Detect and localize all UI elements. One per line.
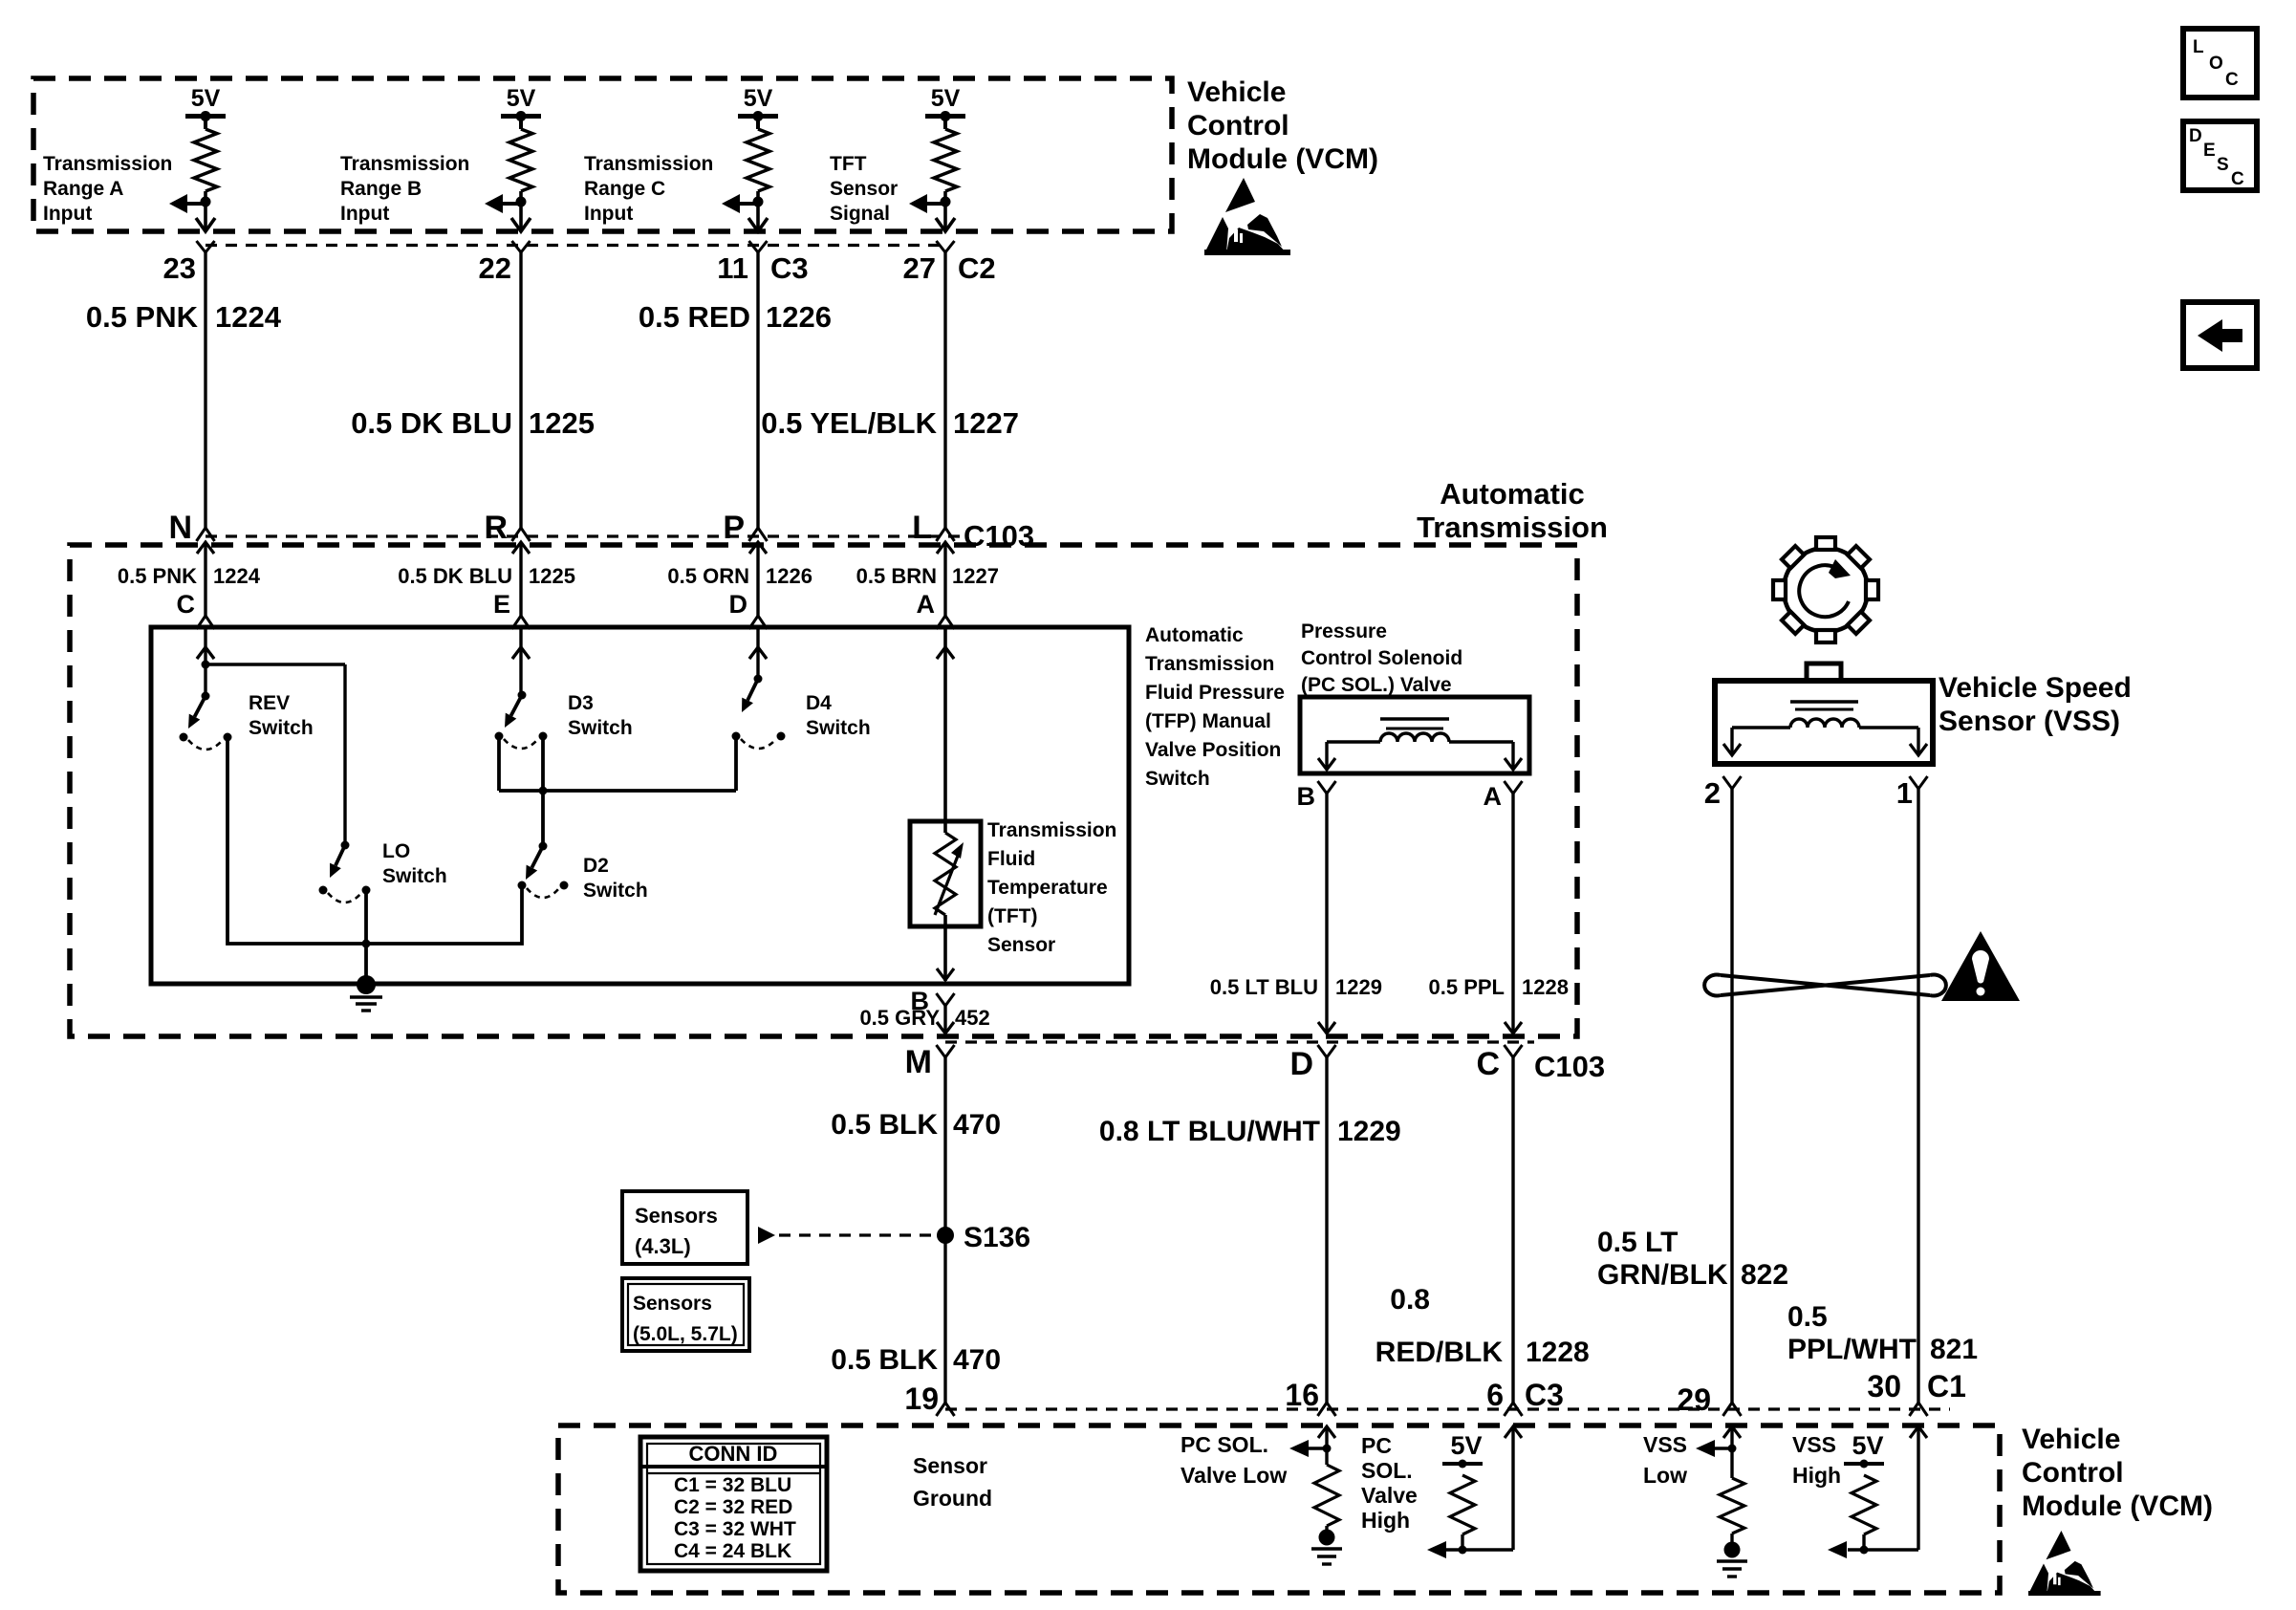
wire label 0.5 LT GRN/BLK 822 xyxy=(1597,1227,1788,1291)
svg-text:C3: C3 xyxy=(770,251,809,285)
svg-text:TFT: TFT xyxy=(830,153,867,175)
label Transmission Range B xyxy=(340,153,469,225)
pin D label AT xyxy=(729,590,748,619)
resistor pull-up 4 (5V) in VCM xyxy=(909,85,965,231)
ESD sensitivity symbol bottom xyxy=(2028,1531,2101,1596)
pin M label xyxy=(905,1044,932,1080)
svg-text:C1 = 32 BLU: C1 = 32 BLU xyxy=(674,1474,791,1496)
svg-text:23: 23 xyxy=(163,251,196,285)
svg-text:Ground: Ground xyxy=(913,1486,992,1511)
svg-text:0.5 PPL: 0.5 PPL xyxy=(1429,975,1505,999)
wire E stub xyxy=(512,627,530,695)
svg-text:GRN/BLK: GRN/BLK xyxy=(1597,1259,1728,1291)
wire valve B down xyxy=(1318,781,1336,1033)
svg-text:C2: C2 xyxy=(958,251,996,285)
svg-text:Automatic: Automatic xyxy=(1440,477,1585,511)
wire label 0.5 LT BLU 1229 xyxy=(1210,975,1382,999)
svg-text:821: 821 xyxy=(1930,1334,1978,1365)
wire M sensor ground xyxy=(937,1045,955,1416)
pin 22 label xyxy=(479,251,511,285)
svg-text:Signal: Signal xyxy=(830,203,890,225)
svg-text:0.5 ORN: 0.5 ORN xyxy=(667,564,749,588)
resistor pull-up 2 (5V) in VCM xyxy=(485,85,541,231)
switch REV xyxy=(180,692,232,751)
label PC SOL Valve Low xyxy=(1180,1432,1287,1488)
svg-text:C1: C1 xyxy=(1927,1369,1966,1403)
svg-text:0.5 RED: 0.5 RED xyxy=(639,300,750,334)
label Automatic Transmission xyxy=(1417,477,1608,544)
pin 1 label xyxy=(1896,776,1913,810)
pin 27 label xyxy=(903,251,996,285)
wire label 0.5 ORN 1226 small xyxy=(667,564,812,588)
svg-text:E: E xyxy=(2203,141,2216,161)
svg-text:M: M xyxy=(905,1044,932,1080)
svg-text:0.5 BLK: 0.5 BLK xyxy=(831,1109,938,1141)
wire label 0.8 RED/BLK 1228 xyxy=(1375,1284,1590,1368)
svg-text:A: A xyxy=(1484,782,1503,811)
svg-text:27: 27 xyxy=(903,251,936,285)
TFT sensor (thermistor) xyxy=(910,627,981,981)
resistor pull-up 1 (5V) in VCM xyxy=(169,85,226,231)
DESC reference box xyxy=(2183,121,2257,190)
pin C label xyxy=(1476,1046,1500,1082)
wire VSS low down xyxy=(1723,776,1742,1416)
svg-text:PC: PC xyxy=(1361,1433,1392,1458)
svg-text:Sensors: Sensors xyxy=(635,1204,718,1228)
svg-text:A: A xyxy=(917,590,936,619)
pin P label xyxy=(723,510,745,546)
svg-text:(5.0L, 5.7L): (5.0L, 5.7L) xyxy=(633,1323,738,1345)
svg-text:0.5 GRY: 0.5 GRY xyxy=(859,1006,940,1030)
svg-text:11: 11 xyxy=(717,251,748,285)
wire D3 to D2 xyxy=(539,736,548,846)
svg-text:S136: S136 xyxy=(964,1222,1030,1253)
svg-text:Range C: Range C xyxy=(584,178,665,200)
svg-text:1224: 1224 xyxy=(213,564,261,588)
svg-text:6: 6 xyxy=(1486,1378,1504,1412)
svg-text:C: C xyxy=(2225,70,2239,90)
svg-text:452: 452 xyxy=(955,1006,990,1030)
svg-text:Fluid: Fluid xyxy=(987,848,1035,870)
wire label 0.5 PNK 1224 small xyxy=(118,564,261,588)
label Vehicle Speed Sensor xyxy=(1939,672,2132,737)
pin A label AT xyxy=(917,590,936,619)
wire B to C103 xyxy=(937,993,955,1033)
PC SOL valve low resistor and ground xyxy=(1289,1426,1342,1564)
svg-text:D: D xyxy=(729,590,748,619)
pin L label xyxy=(912,510,932,546)
svg-text:1225: 1225 xyxy=(529,564,575,588)
wire segment 2 VCM to C103 xyxy=(512,241,531,659)
wire valve A down xyxy=(1505,781,1523,1033)
svg-text:1229: 1229 xyxy=(1335,975,1382,999)
wire segment 1 VCM to C103 xyxy=(197,241,215,659)
svg-text:5V: 5V xyxy=(191,85,221,112)
svg-text:(PC SOL.) Valve: (PC SOL.) Valve xyxy=(1301,674,1452,696)
pin R label xyxy=(484,510,508,546)
svg-text:1228: 1228 xyxy=(1526,1337,1590,1368)
twisted pair symbol xyxy=(1704,975,1946,996)
svg-text:470: 470 xyxy=(953,1344,1001,1376)
svg-text:0.8 LT BLU/WHT: 0.8 LT BLU/WHT xyxy=(1099,1116,1320,1147)
svg-text:C: C xyxy=(2231,169,2244,189)
svg-text:CONN ID: CONN ID xyxy=(689,1442,778,1466)
label LO Switch xyxy=(382,840,447,887)
wire label 0.5 PNK 1224 xyxy=(86,300,282,334)
svg-text:Switch: Switch xyxy=(568,717,633,739)
svg-text:Switch: Switch xyxy=(583,880,648,902)
label PC SOL valve xyxy=(1301,620,1462,696)
svg-text:SOL.: SOL. xyxy=(1361,1458,1413,1483)
svg-text:0.5 PNK: 0.5 PNK xyxy=(118,564,197,588)
svg-text:PC SOL.: PC SOL. xyxy=(1180,1432,1268,1457)
switch D4 xyxy=(732,675,786,750)
svg-text:Low: Low xyxy=(1643,1463,1687,1488)
svg-text:29: 29 xyxy=(1677,1382,1711,1417)
svg-text:Vehicle Speed: Vehicle Speed xyxy=(1939,672,2132,704)
label Transmission Range A xyxy=(43,153,172,225)
svg-text:Switch: Switch xyxy=(382,865,447,887)
svg-text:5V: 5V xyxy=(1852,1431,1883,1460)
pin C label AT xyxy=(177,590,196,619)
wire label 0.5 GRY 452 xyxy=(859,1006,989,1030)
svg-text:0.5 LT BLU: 0.5 LT BLU xyxy=(1210,975,1318,999)
label D2 Switch xyxy=(583,855,648,902)
svg-text:C3 = 32 WHT: C3 = 32 WHT xyxy=(674,1518,796,1540)
svg-text:Control: Control xyxy=(2022,1457,2124,1489)
VSS reluctor gear icon xyxy=(1773,537,1878,642)
svg-text:Switch: Switch xyxy=(249,717,314,739)
svg-text:High: High xyxy=(1792,1463,1841,1488)
svg-text:D: D xyxy=(1289,1046,1313,1082)
VSS high resistor xyxy=(1828,1426,1927,1558)
C103 label top xyxy=(964,519,1034,553)
connector line C3/C1 bottom (thin dashed) xyxy=(945,1407,1950,1410)
svg-text:R: R xyxy=(484,510,508,546)
TFP manual valve position switch box xyxy=(151,627,1129,984)
svg-text:Transmission: Transmission xyxy=(1145,653,1274,675)
label REV Switch xyxy=(249,692,314,739)
LOC reference box xyxy=(2183,29,2257,98)
svg-text:30: 30 xyxy=(1867,1369,1901,1403)
PC SOL valve high resistor xyxy=(1427,1426,1522,1558)
pin 23 label xyxy=(163,251,196,285)
svg-text:5V: 5V xyxy=(1450,1431,1482,1460)
svg-text:Switch: Switch xyxy=(1145,768,1210,790)
svg-text:Range A: Range A xyxy=(43,178,123,200)
svg-text:D: D xyxy=(2189,126,2202,146)
label VSS High xyxy=(1792,1432,1841,1488)
svg-text:Valve Low: Valve Low xyxy=(1180,1463,1287,1488)
ESD sensitivity symbol top xyxy=(1204,178,1290,255)
label VSS Low xyxy=(1643,1432,1687,1488)
label D4 Switch xyxy=(806,692,871,739)
back-arrow reference box xyxy=(2183,302,2257,368)
wire label 0.5 BRN 1227 small xyxy=(856,564,999,588)
Sensors 5.0L 5.7L box xyxy=(622,1278,749,1351)
svg-text:Input: Input xyxy=(43,203,92,225)
svg-text:RED/BLK: RED/BLK xyxy=(1375,1337,1504,1368)
svg-text:VSS: VSS xyxy=(1643,1432,1687,1457)
svg-text:D4: D4 xyxy=(806,692,832,714)
vehicle speed sensor body xyxy=(1715,664,1933,764)
svg-text:Valve: Valve xyxy=(1361,1483,1418,1508)
svg-text:470: 470 xyxy=(953,1109,1001,1141)
svg-text:1: 1 xyxy=(1896,776,1913,810)
svg-text:C: C xyxy=(1476,1046,1500,1082)
svg-text:Vehicle: Vehicle xyxy=(2022,1424,2120,1455)
switch LO xyxy=(319,841,371,903)
svg-text:VSS: VSS xyxy=(1792,1432,1836,1457)
svg-text:0.5 LT: 0.5 LT xyxy=(1597,1227,1678,1258)
label TFT sensor xyxy=(987,819,1116,956)
resistor pull-up 3 (5V) in VCM xyxy=(722,85,778,231)
svg-text:Pressure: Pressure xyxy=(1301,620,1387,642)
svg-text:(TFP) Manual: (TFP) Manual xyxy=(1145,710,1271,732)
svg-text:Transmission: Transmission xyxy=(987,819,1116,841)
svg-text:Transmission: Transmission xyxy=(43,153,172,175)
connector line C103 bottom (thin dashed) xyxy=(945,1040,1534,1043)
svg-text:1227: 1227 xyxy=(953,406,1019,440)
label Transmission Range C xyxy=(584,153,713,225)
svg-text:Module (VCM): Module (VCM) xyxy=(2022,1490,2213,1522)
svg-text:Transmission: Transmission xyxy=(1417,511,1608,544)
wire label 0.5 DK BLU 1225 small xyxy=(398,564,575,588)
VSS low resistor and ground xyxy=(1696,1426,1747,1577)
switch D3 xyxy=(495,691,548,750)
label TFT Sensor xyxy=(830,153,898,225)
svg-text:C4 = 24 BLK: C4 = 24 BLK xyxy=(674,1540,791,1562)
svg-text:REV: REV xyxy=(249,692,290,714)
wire D3-D4 link xyxy=(499,736,736,791)
wire LO to ground xyxy=(362,890,371,984)
wire segment 3 VCM to C103 xyxy=(749,241,768,659)
connector line C3/C2 (thin dashed) xyxy=(206,244,945,247)
wire label 0.5 RED 1226 xyxy=(639,300,832,334)
wire D pcsol low xyxy=(1318,1045,1336,1416)
wire label 0.5 PPL 1228 xyxy=(1429,975,1569,999)
svg-text:0.5 DK BLU: 0.5 DK BLU xyxy=(351,406,512,440)
svg-text:1227: 1227 xyxy=(952,564,999,588)
svg-text:S: S xyxy=(2217,155,2229,175)
svg-text:Control: Control xyxy=(1187,110,1289,141)
wire label 0.8 LT BLU/WHT 1229 xyxy=(1099,1116,1401,1147)
wire C pcsol high xyxy=(1505,1045,1523,1416)
pin 11 label xyxy=(717,251,808,285)
wire label 0.5 BLK 470 lower xyxy=(831,1344,1001,1376)
ground symbol TFP xyxy=(350,975,382,1011)
pin B label valve xyxy=(1297,782,1316,811)
svg-text:High: High xyxy=(1361,1508,1410,1533)
wire label 0.5 DK BLU 1225 xyxy=(351,406,595,440)
svg-text:822: 822 xyxy=(1741,1259,1788,1291)
svg-text:O: O xyxy=(2209,54,2223,74)
pin 19 label xyxy=(904,1382,939,1416)
pin 16 label xyxy=(1285,1378,1319,1412)
svg-text:Sensors: Sensors xyxy=(633,1293,712,1315)
bottom VCM module box (dashed) xyxy=(558,1425,2000,1593)
svg-text:B: B xyxy=(1297,782,1316,811)
wire label 0.5 YEL/BLK 1227 xyxy=(761,406,1019,440)
wire label 0.5 PPL/WHT 821 xyxy=(1787,1301,1978,1365)
svg-text:C103: C103 xyxy=(1534,1050,1605,1083)
label PC SOL Valve High xyxy=(1361,1433,1418,1533)
svg-text:0.5: 0.5 xyxy=(1787,1301,1828,1333)
switch D2 xyxy=(518,842,569,899)
svg-text:19: 19 xyxy=(904,1382,939,1416)
svg-text:Module (VCM): Module (VCM) xyxy=(1187,143,1378,175)
svg-text:Fluid Pressure: Fluid Pressure xyxy=(1145,682,1285,704)
CONN ID table xyxy=(640,1437,827,1571)
svg-text:C: C xyxy=(177,590,196,619)
svg-text:Sensor: Sensor xyxy=(987,934,1055,956)
svg-text:L: L xyxy=(912,510,932,546)
pin 30 label xyxy=(1867,1369,1966,1403)
svg-text:C2 = 32 RED: C2 = 32 RED xyxy=(674,1496,792,1518)
dashed link to S136 xyxy=(758,1227,937,1244)
wire C stub xyxy=(197,627,214,696)
svg-text:D2: D2 xyxy=(583,855,609,877)
top VCM module box (dashed) xyxy=(33,78,1172,231)
pin 6 label xyxy=(1486,1378,1564,1412)
svg-text:0.5 PNK: 0.5 PNK xyxy=(86,300,199,334)
svg-text:N: N xyxy=(168,510,192,546)
pin A label valve xyxy=(1484,782,1503,811)
svg-text:P: P xyxy=(723,510,745,546)
svg-text:(TFT): (TFT) xyxy=(987,905,1037,927)
svg-text:1224: 1224 xyxy=(215,300,282,334)
svg-text:0.5 BLK: 0.5 BLK xyxy=(831,1344,938,1376)
svg-text:C3: C3 xyxy=(1525,1378,1564,1412)
warning attention symbol xyxy=(1941,931,2020,1001)
Sensors 4.3L box xyxy=(622,1191,747,1264)
wire segment 4 VCM to C103 xyxy=(937,241,955,659)
connector line C103 (thin dashed) xyxy=(206,534,964,537)
wire D stub xyxy=(749,627,767,679)
svg-text:Automatic: Automatic xyxy=(1145,624,1244,646)
svg-text:E: E xyxy=(493,590,510,619)
label Sensor Ground xyxy=(913,1453,992,1511)
pin B label TFT xyxy=(911,987,930,1015)
svg-text:Vehicle: Vehicle xyxy=(1187,76,1286,108)
svg-text:5V: 5V xyxy=(507,85,536,112)
svg-text:Sensor: Sensor xyxy=(913,1453,987,1478)
svg-text:0.5 YEL/BLK: 0.5 YEL/BLK xyxy=(761,406,937,440)
svg-text:Temperature: Temperature xyxy=(987,877,1108,899)
svg-text:0.8: 0.8 xyxy=(1390,1284,1430,1316)
svg-text:1225: 1225 xyxy=(529,406,595,440)
label TFP switch xyxy=(1145,624,1285,790)
svg-text:Input: Input xyxy=(340,203,389,225)
C103 label bottom xyxy=(1534,1050,1605,1083)
S136 label xyxy=(964,1222,1030,1253)
wire LO feed xyxy=(202,661,346,846)
pin E label AT xyxy=(493,590,510,619)
svg-text:5V: 5V xyxy=(931,85,961,112)
svg-text:Valve Position: Valve Position xyxy=(1145,739,1281,761)
Automatic Transmission box (dashed) xyxy=(70,545,1577,1036)
svg-text:1228: 1228 xyxy=(1522,975,1569,999)
wire label 0.5 BLK 470 upper xyxy=(831,1109,1001,1141)
label Vehicle Control Module (VCM) top xyxy=(1187,76,1378,175)
wire ground run xyxy=(227,737,522,944)
svg-text:(4.3L): (4.3L) xyxy=(635,1234,691,1258)
svg-text:PPL/WHT: PPL/WHT xyxy=(1787,1334,1917,1365)
svg-text:0.5 DK BLU: 0.5 DK BLU xyxy=(398,564,512,588)
svg-text:Switch: Switch xyxy=(806,717,871,739)
svg-text:5V: 5V xyxy=(744,85,773,112)
svg-text:Transmission: Transmission xyxy=(584,153,713,175)
svg-text:Input: Input xyxy=(584,203,633,225)
svg-text:16: 16 xyxy=(1285,1378,1319,1412)
label Vehicle Control Module bottom xyxy=(2022,1424,2213,1522)
svg-text:2: 2 xyxy=(1704,776,1721,810)
svg-text:Sensor (VSS): Sensor (VSS) xyxy=(1939,706,2120,737)
svg-text:1226: 1226 xyxy=(766,564,812,588)
svg-text:Sensor: Sensor xyxy=(830,178,898,200)
svg-text:LO: LO xyxy=(382,840,410,862)
label D3 Switch xyxy=(568,692,633,739)
svg-text:22: 22 xyxy=(479,251,511,285)
svg-text:1229: 1229 xyxy=(1337,1116,1401,1147)
pin 29 label xyxy=(1677,1382,1711,1417)
pin N label xyxy=(168,510,192,546)
svg-text:L: L xyxy=(2193,37,2204,57)
pressure control solenoid valve xyxy=(1300,697,1529,773)
svg-text:1226: 1226 xyxy=(766,300,832,334)
wire VSS high down xyxy=(1910,776,1928,1416)
svg-text:Transmission: Transmission xyxy=(340,153,469,175)
svg-text:Range B: Range B xyxy=(340,178,422,200)
svg-text:D3: D3 xyxy=(568,692,594,714)
pin D label xyxy=(1289,1046,1313,1082)
svg-text:0.5 BRN: 0.5 BRN xyxy=(856,564,937,588)
pin 2 label xyxy=(1704,776,1721,810)
svg-text:Control Solenoid: Control Solenoid xyxy=(1301,647,1462,669)
